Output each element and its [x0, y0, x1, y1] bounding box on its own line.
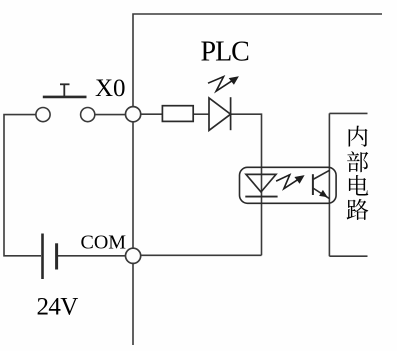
optocoupler light zigzag arrow — [276, 175, 300, 189]
wire: left branch from switch to left rail down to battery — [4, 115, 41, 256]
optocoupler light arrow head — [294, 175, 304, 184]
wire: battery positive lead to COM node — [58, 255, 126, 257]
LED light emission zigzag arrow — [208, 77, 234, 92]
svg-text:PLC: PLC — [201, 36, 250, 67]
phototransistor base bar — [312, 174, 314, 195]
node: X0 input terminal — [126, 107, 141, 122]
wire: optocoupler LED vertical through package — [261, 167, 263, 255]
optocoupler LED cathode bar — [245, 196, 277, 198]
optocoupler package outline — [240, 167, 337, 203]
label internal-circuit char 路 — [347, 199, 369, 220]
battery 24V long plate — [41, 234, 44, 280]
wire: LED cathode to optocoupler branch corner — [231, 114, 262, 167]
svg-text:X0: X0 — [95, 75, 126, 102]
LED light arrow head — [229, 76, 239, 85]
wire: internal circuit left rail — [328, 113, 330, 256]
phototransistor emitter arrow head — [319, 190, 328, 197]
wire: top bus from main vertical to right edge — [133, 14, 382, 345]
pushbutton switch actuator bar — [43, 84, 87, 97]
phototransistor emitter — [313, 188, 330, 199]
svg-text:24V: 24V — [37, 293, 79, 320]
pushbutton right contact circle — [81, 108, 95, 122]
node: COM terminal — [126, 248, 141, 263]
wire: internal circuit bottom stub — [329, 255, 367, 257]
pushbutton left contact circle — [36, 108, 50, 122]
wire: X0 node to resistor — [141, 113, 163, 115]
wire: resistor to LED anode — [193, 113, 209, 115]
label internal-circuit char 部 — [347, 151, 368, 172]
label internal-circuit char 内 — [349, 126, 368, 147]
battery 24V short plate — [55, 243, 58, 269]
resistor (input series resistor) — [162, 106, 193, 122]
optocoupler LED triangle — [246, 174, 276, 192]
wire: optocoupler return to COM node — [134, 254, 262, 256]
LED input indicator: anode triangle — [209, 98, 231, 130]
wire: switch to X0 node — [95, 114, 126, 116]
LED input indicator: cathode bar — [230, 97, 232, 130]
label internal-circuit char 电 — [349, 175, 368, 196]
phototransistor collector — [313, 170, 330, 179]
svg-text:COM: COM — [81, 231, 127, 253]
wire: internal circuit top stub — [329, 112, 367, 114]
